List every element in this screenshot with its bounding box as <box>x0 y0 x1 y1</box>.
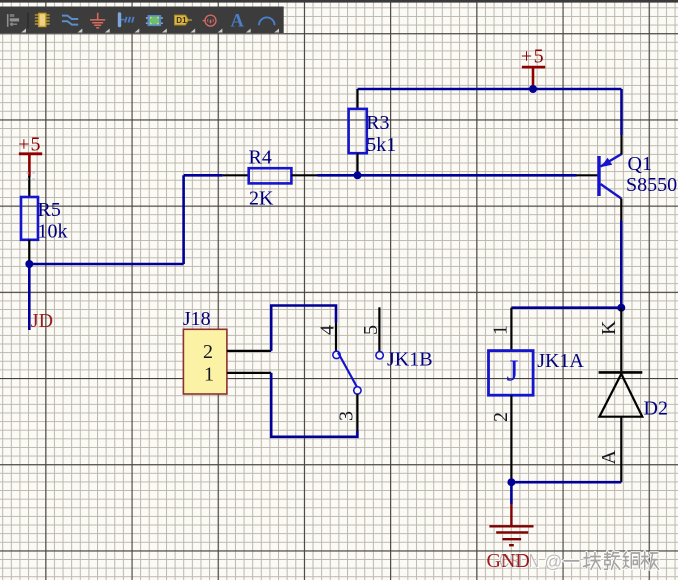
toolbar icon: part fields <box>118 12 134 27</box>
junction dot R3/R4 rail <box>354 171 362 179</box>
wire: collector node left to JK1A <box>511 306 621 309</box>
toolbar icon: component (yellow IC) <box>35 13 50 26</box>
connector J18 <box>183 308 227 394</box>
resistor R3 <box>349 89 397 175</box>
junction dot bottom rail <box>507 478 515 486</box>
resistor R4 <box>223 147 318 210</box>
svg-text:R3: R3 <box>366 112 389 134</box>
toolbar icon: no-ERC (circle i) <box>203 15 216 26</box>
svg-text:JK1A: JK1A <box>537 350 584 372</box>
svg-text:GND: GND <box>487 550 530 572</box>
wire: mid horizontal rail (R4 to Q1 base) <box>184 174 577 177</box>
wire: J18 pin1 down/over to relay common <box>271 373 357 437</box>
power +5 (left) <box>18 133 42 176</box>
svg-text:+5: +5 <box>521 45 545 67</box>
svg-text:2: 2 <box>203 341 213 363</box>
toolbar icon: annotate D1 <box>175 15 192 25</box>
diode D2 <box>598 308 668 483</box>
pin 1 of J18 <box>227 372 271 374</box>
svg-text:Q1: Q1 <box>628 153 652 175</box>
svg-text:K: K <box>598 320 620 335</box>
svg-text:@: @ <box>545 552 563 572</box>
wire: horizontal to R5 branch <box>29 263 183 266</box>
wire: Q1 collector down <box>620 221 623 308</box>
svg-text:A: A <box>231 11 245 31</box>
pin 2 of J18 <box>227 350 271 352</box>
wire: down to GND <box>510 482 513 504</box>
watermark CJK: yi kuai fu tong ban <box>564 552 659 569</box>
svg-text:JD: JD <box>31 310 53 332</box>
svg-text:R4: R4 <box>249 147 272 169</box>
wire: left vertical from R4 rail down <box>182 175 185 264</box>
toolbar icon: text A <box>231 11 245 31</box>
svg-text:10k: 10k <box>38 221 68 243</box>
toolbar dropdown triangles <box>21 29 279 33</box>
svg-text:4: 4 <box>317 325 339 335</box>
junction dot collector node <box>617 304 625 312</box>
resistor R5 <box>21 176 68 264</box>
wire: right vertical to Q1 emitter <box>620 89 623 135</box>
toolbar <box>0 0 678 33</box>
svg-text:D2: D2 <box>644 398 668 420</box>
svg-text:A: A <box>598 450 620 465</box>
svg-text:R5: R5 <box>38 199 61 221</box>
toolbar icon: wires (blue waves) <box>62 16 78 25</box>
net label JD <box>31 310 53 332</box>
svg-text:1: 1 <box>204 363 214 385</box>
wire: stub down to JD <box>28 264 31 330</box>
svg-text:3: 3 <box>336 411 358 421</box>
wire: J18 pin2 up/over to relay contact 4 <box>271 306 336 351</box>
toolbar icon: sheet symbol (green IC) <box>146 15 163 26</box>
svg-text:1: 1 <box>490 325 512 335</box>
svg-text:2: 2 <box>490 412 512 422</box>
ground GND <box>489 504 533 545</box>
svg-text:2K: 2K <box>249 188 274 210</box>
svg-text:5k1: 5k1 <box>366 134 396 156</box>
transistor Q1 <box>577 135 678 221</box>
svg-text:S8550: S8550 <box>626 174 677 196</box>
wire: bottom rail JK1A pin2 to D2 anode <box>511 481 621 484</box>
toolbar separator <box>27 13 28 29</box>
svg-text:D1: D1 <box>176 16 187 25</box>
watermark CSDN @ <box>499 550 562 572</box>
svg-text:5: 5 <box>360 325 382 335</box>
junction dot R5/rail <box>25 260 33 268</box>
wire: top horizontal rail <box>358 88 622 91</box>
svg-text:+5: +5 <box>18 133 41 155</box>
net label GND <box>487 550 530 572</box>
svg-text:J18: J18 <box>183 308 211 330</box>
toolbar icon: arc <box>259 17 275 25</box>
power +5 (right) <box>521 45 545 86</box>
relay coil JK1A <box>489 308 585 483</box>
toolbar icon: power port (red gnd) <box>90 13 105 28</box>
svg-text:J: J <box>507 353 519 388</box>
relay switch JK1B <box>317 307 433 431</box>
toolbar icon: align <box>7 14 19 27</box>
selection mark artifact near R5 pin <box>27 173 35 179</box>
junction dot at +5 rail <box>529 85 537 93</box>
svg-text:JK1B: JK1B <box>387 349 433 371</box>
